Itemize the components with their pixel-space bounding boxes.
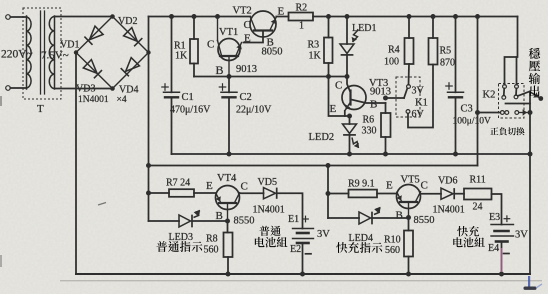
- svg-text:100μ/10V: 100μ/10V: [453, 117, 491, 127]
- resistor R3: [328, 17, 330, 38]
- transistor VT3 9013: [342, 86, 366, 110]
- node charge rail left: [146, 163, 151, 168]
- svg-text:R6: R6: [363, 115, 375, 126]
- svg-text:C1: C1: [182, 92, 194, 103]
- K2 bottom right arrow: [519, 112, 527, 114]
- transistor VT5 8550: [397, 185, 421, 209]
- svg-text:VT2: VT2: [233, 6, 252, 17]
- wire right rail: [529, 92, 531, 275]
- svg-text:R3: R3: [308, 40, 320, 51]
- svg-text:1: 1: [299, 21, 304, 32]
- svg-text:R10: R10: [384, 235, 401, 246]
- node R4 top: [407, 14, 412, 19]
- svg-text:E1: E1: [288, 214, 299, 225]
- capacitor C1: [171, 17, 173, 93]
- svg-text:R2: R2: [296, 3, 308, 14]
- svg-text:E: E: [206, 180, 213, 192]
- K2 arm left: [503, 88, 505, 95]
- resistor R10: [408, 218, 410, 231]
- wire 6V contact to R5 bottom: [408, 65, 433, 128]
- svg-text:C3: C3: [461, 104, 473, 115]
- node R3 bottom: [326, 74, 331, 79]
- switch K1 dashed box: [396, 77, 420, 117]
- node C2 top: [227, 74, 232, 79]
- svg-text:E4: E4: [488, 243, 499, 254]
- node bridge AC top: [110, 14, 115, 19]
- svg-text:1K: 1K: [175, 51, 188, 62]
- node R7 tee: [146, 191, 151, 196]
- svg-text:E: E: [330, 103, 337, 115]
- wire: [10, 16, 26, 18]
- relay K2 dashed box: [499, 84, 525, 119]
- svg-text:E2: E2: [290, 244, 301, 255]
- svg-text:6V: 6V: [412, 109, 425, 120]
- node VT1 collector top: [215, 14, 220, 19]
- node C3 bottom: [453, 152, 458, 157]
- output terminal: [538, 96, 543, 101]
- svg-text:C: C: [421, 180, 428, 192]
- node K2 return: [475, 110, 480, 115]
- wire K2 inner: [506, 103, 531, 105]
- svg-text:9013: 9013: [370, 87, 391, 98]
- svg-text:470μ/16V: 470μ/16V: [170, 105, 211, 116]
- wire secondary bottom to bridge: [55, 88, 113, 90]
- svg-text:1N4001: 1N4001: [253, 205, 285, 216]
- wire secondary top to bridge: [55, 16, 113, 18]
- K2 output arm: [518, 92, 530, 96]
- K2 contact bottom left b: [505, 111, 509, 115]
- svg-text:560: 560: [385, 245, 400, 256]
- diode VD6: [421, 193, 441, 195]
- node right rail mid: [528, 152, 533, 157]
- transistor VT1 9013: [218, 39, 240, 61]
- svg-text:1N4001: 1N4001: [433, 205, 465, 216]
- svg-text:LED3: LED3: [169, 232, 193, 243]
- K2 contact bottom left a: [500, 111, 504, 115]
- wire base line y76: [194, 76, 347, 78]
- svg-text:E: E: [386, 180, 393, 192]
- svg-text:870: 870: [440, 58, 455, 69]
- capacitor C3: [455, 17, 457, 93]
- transformer core: [40, 11, 42, 94]
- LED3: [149, 220, 180, 222]
- svg-text:VT4: VT4: [217, 173, 237, 184]
- K2 contact bottom right: [515, 111, 519, 115]
- wire VT1 emitter to VT2 base: [244, 32, 264, 43]
- wire ground mid rail y154: [172, 153, 531, 155]
- transformer T secondary winding: [54, 16, 56, 89]
- svg-text:×4: ×4: [117, 95, 127, 105]
- svg-text:C: C: [207, 39, 214, 51]
- svg-text:24: 24: [473, 202, 483, 213]
- resistor R9: [328, 193, 349, 195]
- svg-text:B: B: [396, 210, 403, 222]
- node C2 bottom: [227, 152, 232, 157]
- label 普通指示: [156, 241, 167, 252]
- svg-text:3V: 3V: [515, 230, 528, 241]
- resistor R11: [464, 189, 492, 200]
- node right rail K2: [528, 110, 533, 115]
- wire feeder x477 top rail to charge rail: [477, 17, 479, 166]
- output arrow: [530, 92, 539, 98]
- wire top rail to K2: [505, 17, 518, 85]
- node y76 right end: [345, 74, 350, 79]
- node R9 tee: [326, 191, 331, 196]
- label 稳压输出 vertical: [529, 48, 541, 59]
- bridge frame: [76, 17, 149, 89]
- wire R3 node down to emitter line: [329, 77, 350, 117]
- terminal: 220V input top: [6, 15, 11, 20]
- svg-text:560: 560: [204, 245, 219, 256]
- K2 contact top right: [515, 85, 519, 89]
- node R5 top: [431, 14, 436, 19]
- LED2: [349, 116, 351, 124]
- diode VD3: [83, 60, 97, 74]
- svg-text:C: C: [241, 181, 248, 193]
- svg-text:VT5: VT5: [401, 175, 420, 186]
- svg-text:R5: R5: [440, 46, 452, 57]
- node feeder top: [475, 14, 480, 19]
- svg-text:R11: R11: [470, 175, 486, 186]
- node VT3 base / R6: [383, 96, 388, 101]
- svg-text:330: 330: [362, 126, 377, 137]
- label 快充电池组: [457, 226, 468, 236]
- svg-text:LED4: LED4: [349, 233, 373, 244]
- capacitor C2: [228, 77, 230, 93]
- K2 arm right: [515, 88, 517, 95]
- svg-text:7.5V~: 7.5V~: [41, 50, 69, 62]
- svg-text:VT1: VT1: [219, 27, 238, 38]
- node E2 bottom: [300, 272, 305, 277]
- resistor R6: [385, 103, 387, 113]
- transistor VT4 8550: [216, 186, 240, 210]
- K1 contact 3V: [407, 85, 411, 89]
- battery E3 E4: [491, 224, 514, 226]
- node R8 bottom: [226, 272, 231, 277]
- svg-text:K2: K2: [483, 90, 496, 101]
- wire lower right branch: [327, 166, 329, 219]
- diode VD4: [126, 58, 140, 72]
- resistor R4: [408, 17, 410, 39]
- label 普通电池组: [259, 226, 269, 236]
- transformer T primary winding: [26, 16, 28, 89]
- svg-text:R9 9.1: R9 9.1: [348, 179, 375, 190]
- svg-text:B: B: [216, 63, 224, 77]
- svg-text:3V: 3V: [317, 229, 330, 240]
- K2 contact top left: [503, 85, 507, 89]
- svg-text:8050: 8050: [262, 47, 283, 58]
- node LED2 bottom: [347, 152, 352, 157]
- transformer T dashed outline: [23, 8, 61, 99]
- resistor R7: [149, 192, 170, 194]
- node bridge AC bottom: [110, 86, 115, 91]
- svg-text:VD4: VD4: [119, 85, 138, 96]
- label 快充指示: [336, 242, 347, 253]
- wire charge rail y166: [149, 165, 478, 167]
- K2 contact mid right: [514, 95, 518, 99]
- wire K2 second feed: [516, 57, 518, 85]
- svg-text:T: T: [37, 103, 44, 115]
- svg-text:8550: 8550: [414, 215, 435, 226]
- K1 arm: [404, 88, 407, 98]
- svg-text:1N4001: 1N4001: [78, 95, 109, 105]
- resistor R1: [193, 17, 195, 40]
- terminal: 220V input bottom: [6, 86, 11, 91]
- svg-text:B: B: [370, 99, 377, 111]
- svg-text:E: E: [278, 6, 285, 18]
- svg-text:1K: 1K: [309, 51, 322, 62]
- label 正负切换: [490, 127, 498, 134]
- svg-text:C: C: [335, 80, 342, 92]
- wire bridge output vertical x148: [148, 17, 150, 222]
- wire negative left rail: [75, 53, 77, 275]
- node R3 top: [326, 14, 331, 19]
- resistor R5: [432, 17, 434, 39]
- node VT5 base: [406, 215, 411, 220]
- svg-text:R4: R4: [388, 45, 400, 56]
- node bridge DC right: [146, 50, 150, 54]
- transistor VT2 8050: [250, 11, 276, 37]
- K2 contact mid left: [502, 96, 506, 100]
- svg-text:VD6: VD6: [438, 176, 457, 187]
- node VT4 base: [225, 219, 230, 224]
- LED4: [328, 217, 359, 219]
- diode VD5: [240, 192, 264, 194]
- svg-text:9013: 9013: [236, 64, 257, 75]
- resistor R2: [289, 13, 314, 21]
- svg-text:VD3: VD3: [76, 84, 95, 95]
- svg-text:K1: K1: [415, 98, 428, 109]
- svg-text:R7 24: R7 24: [166, 178, 190, 189]
- node C1 top: [169, 14, 174, 19]
- svg-text:22μ/10V: 22μ/10V: [236, 105, 272, 116]
- battery E1 E2: [293, 228, 314, 230]
- node charge rail R9 branch: [326, 163, 331, 168]
- svg-text:C: C: [244, 19, 251, 31]
- node LED1 top: [345, 14, 350, 19]
- wire K2 bottom left out: [478, 112, 501, 114]
- svg-text:C2: C2: [240, 92, 252, 103]
- svg-text:VD1: VD1: [60, 40, 79, 51]
- svg-text:R8: R8: [206, 234, 218, 245]
- diode VD1: [89, 26, 103, 40]
- svg-text:VD5: VD5: [258, 177, 277, 188]
- node E4 bottom: [499, 272, 504, 277]
- svg-text:VD2: VD2: [118, 16, 137, 27]
- node R6 bottom: [383, 152, 388, 157]
- wire: [10, 87, 26, 89]
- LED1: [346, 17, 348, 45]
- resistor R8: [227, 221, 229, 233]
- diode VD2: [124, 28, 138, 42]
- svg-text:LED2: LED2: [309, 132, 335, 143]
- node C3 top: [453, 14, 458, 19]
- K1 contact 6V: [406, 110, 410, 114]
- svg-text:E3: E3: [489, 212, 500, 223]
- node VT3 emitter / LED2: [347, 114, 352, 119]
- node R1 top: [192, 14, 197, 19]
- node R10 bottom: [406, 272, 411, 277]
- svg-text:3V: 3V: [412, 86, 425, 97]
- svg-text:100: 100: [384, 57, 399, 68]
- svg-text:8550: 8550: [234, 216, 255, 227]
- wire top supply rail: [149, 16, 251, 18]
- node bridge DC left: [74, 50, 78, 54]
- wire bottom ground rail: [76, 273, 530, 275]
- wire K1 common: [386, 97, 405, 99]
